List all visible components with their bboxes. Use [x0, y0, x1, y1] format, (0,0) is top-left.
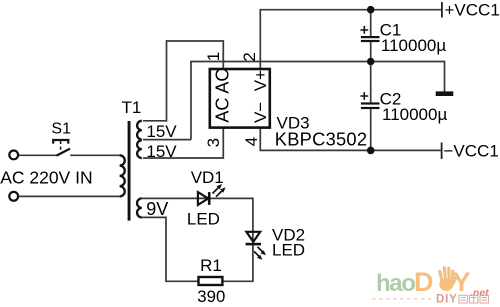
svg-text:15V: 15V [146, 122, 177, 141]
svg-text:KBPC3502: KBPC3502 [275, 129, 367, 150]
svg-text:V+: V+ [251, 70, 270, 91]
svg-text:2: 2 [240, 52, 259, 61]
svg-text:AC 220V IN: AC 220V IN [0, 168, 92, 188]
svg-text:hao: hao [376, 270, 415, 297]
svg-text:LED: LED [187, 209, 220, 228]
svg-text:110000µ: 110000µ [381, 36, 446, 55]
svg-text:390: 390 [197, 287, 225, 306]
svg-text:DIY: DIY [436, 294, 458, 306]
svg-text:1: 1 [204, 52, 223, 61]
svg-text:S1: S1 [51, 121, 71, 138]
svg-text:9V: 9V [146, 199, 168, 219]
svg-text:−VCC1: −VCC1 [444, 141, 499, 160]
svg-text:D: D [414, 267, 434, 297]
svg-text:15V: 15V [146, 142, 177, 161]
svg-text:110000µ: 110000µ [382, 105, 447, 124]
svg-text:4: 4 [242, 137, 261, 146]
svg-text:V−: V− [251, 102, 270, 123]
svg-text:AC AC: AC AC [213, 69, 233, 123]
svg-text:3: 3 [204, 138, 223, 147]
svg-text:+VCC1: +VCC1 [445, 1, 500, 20]
svg-text:R1: R1 [200, 256, 222, 275]
svg-text:LED: LED [272, 241, 305, 260]
svg-text:T1: T1 [122, 98, 142, 117]
svg-text:VD1: VD1 [191, 168, 224, 187]
